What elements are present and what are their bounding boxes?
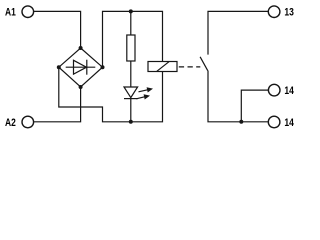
- dashed actuator link: [179, 66, 201, 68]
- contact blade (NO switch): [200, 57, 208, 71]
- relay coil K1: [148, 62, 177, 72]
- node resistor branch: [129, 9, 133, 13]
- node bridge top: [79, 46, 83, 50]
- svg-text:A2: A2: [5, 117, 16, 129]
- svg-text:14: 14: [284, 117, 294, 129]
- coil diagonal: [157, 62, 169, 72]
- contact fixed terminal from 13: [208, 11, 268, 54]
- node bridge bottom: [79, 85, 83, 89]
- LED arrow 1: [139, 87, 154, 92]
- terminal A1: [22, 6, 34, 18]
- node 14 junction: [239, 120, 243, 124]
- node LED to return line: [129, 120, 133, 124]
- terminal 14 lower: [268, 116, 280, 128]
- wire A1 to bridge top: [34, 11, 81, 48]
- wire bridge left vertex to return line: [59, 67, 163, 122]
- node bridge left: [57, 65, 61, 69]
- contact lower terminal wire to 14: [208, 71, 268, 122]
- svg-text:14: 14: [284, 85, 294, 97]
- resistor R1: [127, 35, 135, 61]
- wire A2 to bridge bottom: [34, 87, 81, 122]
- node bridge right: [101, 65, 105, 69]
- LED D1: [124, 87, 138, 122]
- terminal 14 upper: [268, 84, 280, 96]
- svg-text:A1: A1: [5, 6, 16, 18]
- LED arrow 2: [136, 94, 150, 99]
- wire resistor to LED: [130, 61, 132, 87]
- wire bridge right vertex to top rail: [103, 11, 163, 67]
- wire bridge between 14 terminals: [241, 90, 268, 122]
- terminal 13: [268, 6, 280, 18]
- wire top rail to resistor: [130, 11, 132, 35]
- diode inside bridge: [66, 60, 96, 75]
- terminal A2: [22, 116, 34, 128]
- svg-text:13: 13: [284, 6, 294, 18]
- bridge rectifier diamond: [59, 48, 103, 87]
